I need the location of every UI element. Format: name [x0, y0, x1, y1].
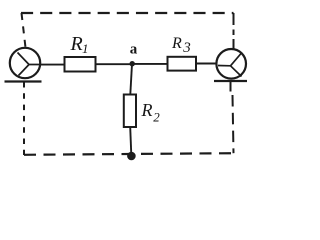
svg-text:2: 2 [153, 109, 160, 124]
dashed boundary left lower [23, 82, 25, 155]
dashed boundary bottom [24, 153, 234, 155]
resistor R3 [168, 57, 197, 71]
current source I2 arrow [218, 54, 242, 77]
dashed boundary right lower stub [230, 81, 232, 92]
bottom junction dot [127, 152, 136, 161]
wire node a down to R2 [130, 64, 132, 95]
resistor R1 [65, 57, 96, 72]
svg-text:R: R [141, 100, 153, 120]
svg-text:R: R [171, 35, 182, 52]
current source I1 bottom bar [5, 80, 42, 82]
current source I2 bottom bar [214, 80, 247, 82]
wire R3 to I2 [196, 63, 217, 65]
wire R1 to node a [96, 63, 131, 65]
dashed boundary top [21, 12, 234, 14]
node a junction dot [130, 61, 135, 66]
svg-text:1: 1 [82, 41, 89, 56]
wire R2 to bottom junction [130, 127, 131, 153]
wire node a to R3 [135, 63, 168, 65]
resistor R2 [124, 95, 136, 128]
svg-text:3: 3 [182, 40, 191, 56]
dashed boundary left upper [22, 13, 26, 48]
label R1 [70, 33, 89, 56]
label R2 [141, 100, 161, 124]
label R3 [171, 35, 191, 56]
svg-text:R: R [70, 33, 83, 55]
current source I2 circle [216, 49, 246, 79]
dashed boundary right lower [233, 95, 234, 153]
dashed boundary right upper [233, 13, 235, 49]
svg-text:a: a [130, 42, 138, 58]
wire I1 to R1 [40, 64, 65, 66]
current source I1 arrow [18, 53, 41, 76]
current source I1 circle [10, 48, 40, 78]
